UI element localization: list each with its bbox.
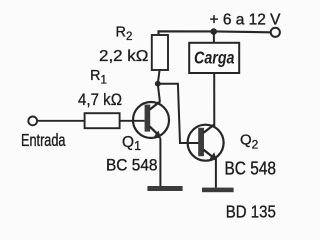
wire carga top feed [213,32,215,43]
wire entrada to R1 [37,120,84,122]
terminal +V [271,28,280,37]
wire R2 bottom to node A [158,70,160,84]
svg-text:Entrada: Entrada [21,130,66,150]
wire node A to Q1 collector [158,84,160,102]
resistor R2 [152,35,168,70]
wire Q1 emitter to ground [159,139,161,187]
wire carga bottom to Q2 collector [213,73,215,126]
svg-text:2,2 kΩ: 2,2 kΩ [99,48,149,65]
ground Q1 [147,186,182,191]
svg-text:BC 548: BC 548 [106,157,158,175]
svg-text:+ 6 a 12 V: + 6 a 12 V [210,12,281,29]
resistor R1 [85,113,120,128]
svg-text:Carga: Carga [194,47,235,67]
load box Carga [189,43,239,73]
svg-text:BD 135: BD 135 [226,202,276,222]
wire R1 to Q1 base [120,120,145,122]
transistor Q2 [188,124,224,160]
terminal Entrada [28,117,37,126]
ground Q2 [202,188,234,193]
wire node A to Q2 base [158,84,199,143]
wire top supply rail [159,31,271,35]
svg-text:4,7 kΩ: 4,7 kΩ [78,91,122,109]
wire Q2 emitter to ground [215,158,217,188]
node supply junction [210,28,217,35]
node A junction dot [155,81,161,87]
transistor Q1 [133,101,169,139]
svg-text:BC 548: BC 548 [225,158,277,178]
